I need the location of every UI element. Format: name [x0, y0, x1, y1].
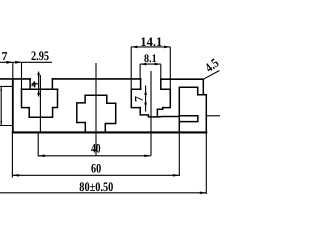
- svg-text:14.1: 14.1: [140, 34, 162, 49]
- svg-text:40: 40: [91, 141, 101, 156]
- svg-text:7: 7: [133, 96, 145, 102]
- svg-text:2.95: 2.95: [31, 48, 49, 63]
- svg-text:60: 60: [91, 161, 101, 176]
- svg-text:8.1: 8.1: [144, 53, 157, 65]
- svg-text:4: 4: [31, 81, 36, 91]
- svg-text:80±0.50: 80±0.50: [79, 179, 113, 194]
- svg-text:7: 7: [2, 49, 8, 63]
